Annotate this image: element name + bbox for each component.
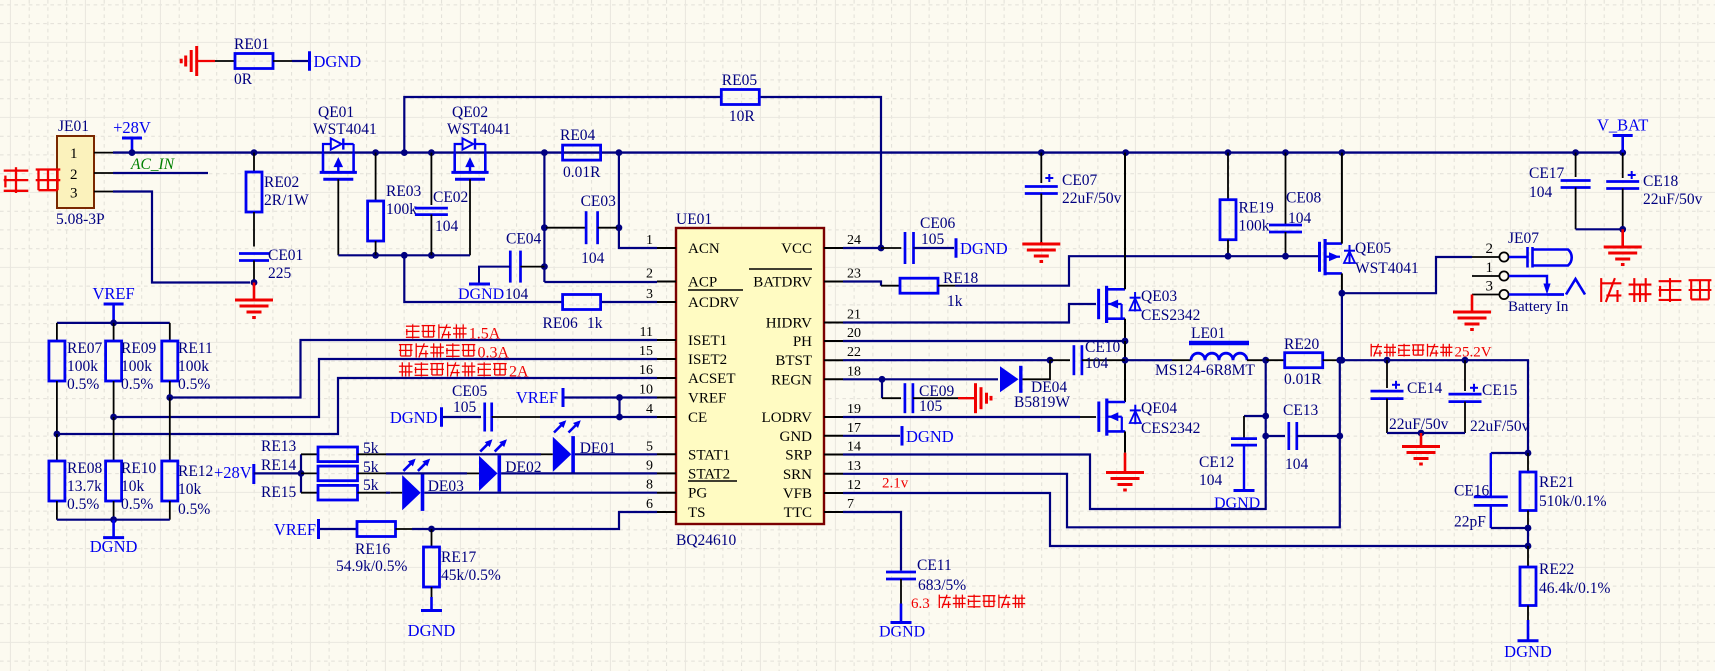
svg-text:5.08-3P: 5.08-3P	[56, 211, 105, 228]
svg-text:V_BAT: V_BAT	[1597, 116, 1648, 135]
svg-text:RE21: RE21	[1539, 474, 1574, 491]
junction rail x=254	[251, 149, 258, 156]
junction CE12 tap	[1262, 413, 1269, 420]
capacitor CE11	[879, 557, 966, 641]
junction gate rail CE02	[428, 252, 435, 259]
junction CE14 tap	[1384, 357, 1391, 364]
capacitor CE04	[505, 231, 544, 304]
svg-text:DGND: DGND	[390, 408, 438, 427]
svg-text:VREF: VREF	[93, 284, 135, 303]
svg-text:105: 105	[921, 231, 945, 248]
junction gate rail ACDRV	[401, 252, 408, 259]
svg-text:1k: 1k	[587, 315, 603, 332]
capacitor CE01	[239, 247, 303, 283]
junction CE row	[616, 414, 623, 421]
capacitor CE12	[1199, 416, 1266, 512]
resistor RE10	[106, 417, 157, 520]
svg-text:CE: CE	[688, 410, 707, 426]
svg-text:CE10: CE10	[1085, 339, 1121, 356]
svg-text:0.01R: 0.01R	[563, 164, 601, 181]
junction rail x=1228	[1225, 149, 1232, 156]
svg-text:10k: 10k	[121, 478, 145, 495]
transistor QE04	[1099, 399, 1201, 438]
svg-text:4: 4	[646, 402, 653, 417]
svg-text:104: 104	[1529, 184, 1553, 201]
svg-text:RE03: RE03	[386, 183, 422, 200]
resistor RE18	[843, 270, 979, 310]
svg-text:22: 22	[847, 345, 861, 360]
junction LE01 right	[1262, 357, 1269, 364]
LED DE01	[386, 420, 657, 472]
wire JE01 pin2 / net AC_IN	[94, 156, 208, 173]
ground earth (CE07)	[1022, 242, 1060, 262]
svg-text:JE01: JE01	[58, 118, 89, 135]
wire SRP net	[843, 360, 1266, 509]
svg-text:DGND: DGND	[314, 52, 362, 71]
svg-text:CE02: CE02	[433, 189, 468, 206]
power port VREF (pin10)	[516, 388, 657, 407]
svg-text:QE03: QE03	[1141, 288, 1177, 305]
label 输入 (input)	[4, 167, 61, 193]
svg-text:ACN: ACN	[688, 241, 720, 257]
ground earth (RE01)	[181, 46, 215, 76]
svg-text:9: 9	[646, 458, 653, 473]
wire divider top rail	[57, 322, 170, 324]
ground DGND (divider)	[90, 520, 138, 556]
svg-text:3: 3	[1486, 279, 1494, 295]
transistor QE02	[447, 104, 511, 179]
wire CE17-CE18 gnd	[1576, 228, 1623, 230]
wire VCC	[843, 247, 881, 249]
wire ISET1 net	[170, 340, 657, 398]
wire BATDRV	[955, 256, 1318, 286]
junction CE08 bottom	[1282, 253, 1289, 260]
svg-text:DGND: DGND	[408, 621, 456, 640]
svg-text:100k: 100k	[386, 201, 417, 218]
svg-text:8: 8	[646, 478, 653, 493]
svg-text:DGND: DGND	[458, 286, 504, 303]
svg-text:RE17: RE17	[441, 549, 477, 566]
svg-text:6.3: 6.3	[911, 596, 930, 612]
svg-text:ACSET: ACSET	[688, 371, 736, 387]
svg-text:13: 13	[847, 459, 861, 474]
label 适配器限制电流2A	[399, 362, 529, 380]
svg-text:510k/0.1%: 510k/0.1%	[1539, 493, 1607, 510]
wire QE05 drain	[1341, 153, 1343, 244]
svg-text:CE05: CE05	[452, 383, 488, 400]
wire JE01 pin3	[94, 192, 250, 283]
wire QE04 source	[1124, 431, 1126, 452]
svg-text:WST4041: WST4041	[1355, 260, 1419, 277]
ground earth (CE14/15)	[1402, 433, 1440, 464]
svg-text:SRP: SRP	[785, 448, 812, 464]
svg-text:683/5%: 683/5%	[918, 577, 966, 594]
label 接锂电池	[1601, 278, 1711, 302]
ground earth (QE04)	[1106, 453, 1144, 490]
capacitor CE16	[1454, 453, 1528, 531]
svg-text:100k: 100k	[67, 358, 98, 375]
svg-text:CE04: CE04	[506, 231, 542, 248]
junction RE07/RE08	[54, 431, 61, 438]
svg-text:5: 5	[646, 439, 653, 454]
capacitor CE18	[1606, 153, 1702, 230]
svg-text:0.3A: 0.3A	[478, 345, 510, 362]
svg-text:104: 104	[1085, 355, 1109, 372]
connector JE01	[56, 118, 105, 228]
wire ACDRV	[404, 255, 657, 302]
wire ISET2 net	[114, 359, 657, 417]
svg-text:LODRV: LODRV	[762, 410, 813, 426]
junction CE18 gnd	[1619, 226, 1626, 233]
junction RE17 top	[428, 526, 435, 533]
LED DE03	[386, 459, 657, 511]
svg-text:CE07: CE07	[1062, 172, 1098, 189]
svg-text:104: 104	[581, 250, 605, 267]
svg-text:STAT1: STAT1	[688, 447, 730, 463]
svg-text:VFB: VFB	[783, 486, 812, 502]
resistor RE13	[261, 438, 386, 462]
transistor QE05	[1320, 239, 1419, 277]
resistor RE06	[543, 295, 603, 333]
resistor RE14	[261, 457, 386, 481]
svg-text:Battery In: Battery In	[1508, 299, 1569, 315]
junction PH	[1122, 338, 1129, 345]
svg-text:11: 11	[640, 325, 653, 340]
svg-text:21: 21	[847, 308, 861, 323]
wire RE21-VFB	[1527, 528, 1529, 546]
svg-text:SRN: SRN	[783, 467, 812, 483]
resistor RE22	[1520, 546, 1611, 620]
svg-text:5k: 5k	[363, 459, 379, 476]
svg-text:19: 19	[847, 402, 861, 417]
svg-text:PG: PG	[688, 486, 707, 502]
capacitor CE05	[443, 383, 540, 432]
junction CE15 tap	[1462, 357, 1469, 364]
wire RE13-15 common	[300, 454, 302, 492]
svg-text:RE18: RE18	[943, 270, 979, 287]
wire ACP	[544, 281, 657, 283]
resistor RE11	[162, 323, 213, 398]
wire VREF tie	[618, 398, 620, 418]
svg-text:7: 7	[847, 497, 854, 512]
wire battery feed	[1341, 293, 1343, 360]
wire CE pin4	[540, 416, 657, 418]
junction rail x=375	[372, 149, 379, 156]
wire QE01 gate	[337, 179, 339, 255]
svg-text:1: 1	[1486, 260, 1494, 276]
svg-text:RE06: RE06	[543, 315, 579, 332]
svg-text:TS: TS	[688, 505, 706, 521]
resistor RE08	[49, 434, 103, 520]
resistor RE04	[560, 127, 601, 181]
svg-text:1k: 1k	[947, 293, 963, 310]
svg-text:BTST: BTST	[775, 353, 812, 369]
ground earth (CE18)	[1604, 229, 1642, 264]
junction VREF	[110, 320, 117, 327]
junction REGN	[879, 376, 886, 383]
svg-text:JE07: JE07	[1508, 230, 1539, 247]
ground earth (CE01)	[235, 283, 273, 318]
svg-text:WST4041: WST4041	[313, 121, 377, 138]
junction RE11/RE12	[166, 394, 173, 401]
junction VCC	[878, 245, 885, 252]
junction RE20 right	[1336, 357, 1343, 364]
wire QE05 source	[1341, 273, 1343, 293]
svg-text:+28V: +28V	[113, 118, 151, 137]
svg-text:2.1v: 2.1v	[882, 476, 909, 492]
svg-text:2: 2	[70, 167, 78, 183]
junction rail x=431	[428, 149, 435, 156]
svg-text:CE13: CE13	[1283, 402, 1319, 419]
svg-text:+28V: +28V	[214, 463, 252, 482]
svg-text:20: 20	[847, 326, 861, 341]
svg-text:DGND: DGND	[1504, 642, 1552, 661]
resistor RE03	[368, 153, 422, 256]
svg-text:3: 3	[70, 186, 78, 202]
svg-text:0.5%: 0.5%	[67, 376, 99, 393]
label 快充电流1.5A	[406, 324, 501, 342]
IC U_E01 BQ24610	[639, 211, 861, 549]
capacitor CE15	[1449, 360, 1530, 435]
junction rail x=544	[541, 149, 548, 156]
wire PH	[843, 340, 1125, 342]
svg-text:CE17: CE17	[1529, 165, 1565, 182]
wire VFB net	[843, 493, 1527, 546]
svg-text:2A: 2A	[509, 364, 529, 381]
svg-text:RE15: RE15	[261, 484, 297, 501]
svg-text:DGND: DGND	[906, 427, 954, 446]
svg-text:1.5A: 1.5A	[469, 326, 501, 343]
svg-text:UE01: UE01	[676, 211, 712, 228]
ground DGND (RE22)	[1504, 620, 1552, 661]
svg-text:ACDRV: ACDRV	[688, 295, 739, 311]
svg-text:10R: 10R	[729, 108, 756, 125]
svg-text:RE01: RE01	[234, 36, 269, 53]
svg-text:DGND: DGND	[90, 537, 138, 556]
svg-text:24: 24	[847, 233, 861, 248]
svg-text:CE03: CE03	[581, 193, 617, 210]
svg-text:16: 16	[639, 363, 653, 378]
junction DE04 top	[1047, 357, 1054, 364]
svg-text:0.5%: 0.5%	[121, 496, 153, 513]
wire HIDRV	[843, 304, 1096, 323]
junction RE14 left	[298, 470, 305, 477]
svg-text:15: 15	[639, 344, 653, 359]
wire QE03 source	[1124, 319, 1126, 341]
wire main rail	[113, 151, 1623, 153]
resistor RE05	[721, 72, 759, 125]
junction rail x=1622	[1619, 149, 1626, 156]
junction rail x=1575	[1572, 149, 1579, 156]
power port +28V	[113, 118, 151, 153]
svg-text:25.2V: 25.2V	[1455, 345, 1492, 361]
svg-text:22uF/50v: 22uF/50v	[1470, 418, 1530, 435]
power port VREF (divider)	[93, 284, 135, 323]
svg-text:18: 18	[847, 364, 861, 379]
svg-text:12: 12	[847, 478, 861, 493]
junction gate rail RE03	[372, 252, 379, 259]
wire JE07 pin1	[1472, 276, 1585, 295]
svg-text:104: 104	[1288, 210, 1312, 227]
wire SRN net	[843, 360, 1340, 527]
svg-text:RE20: RE20	[1284, 336, 1320, 353]
junction rail x=1341	[1339, 149, 1346, 156]
power port +28V (RE13 group)	[214, 463, 301, 484]
svg-text:RE11: RE11	[178, 340, 213, 357]
svg-text:VCC: VCC	[781, 241, 812, 257]
svg-text:B5819W: B5819W	[1014, 394, 1070, 411]
svg-text:BATDRV: BATDRV	[753, 275, 812, 291]
label 最高充电电压25.2V	[1371, 344, 1492, 361]
wire QE03 drain	[1124, 153, 1126, 290]
LED DE02	[386, 439, 657, 491]
junction SRN-CE13	[1336, 433, 1343, 440]
svg-text:CE15: CE15	[1482, 382, 1518, 399]
svg-text:3: 3	[646, 287, 653, 302]
junction CE01 bottom	[251, 279, 258, 286]
svg-text:RE08: RE08	[67, 460, 103, 477]
svg-text:1: 1	[70, 146, 78, 162]
junction RE21 top	[1525, 450, 1532, 457]
resistor RE02	[246, 153, 309, 247]
svg-text:0.01R: 0.01R	[1284, 371, 1322, 388]
ground DGND (RE17)	[408, 597, 456, 640]
power port V_BAT	[1597, 116, 1648, 153]
resistor RE20	[1266, 336, 1338, 388]
svg-text:1: 1	[646, 233, 653, 248]
svg-text:STAT2: STAT2	[688, 466, 730, 482]
label 2.1v	[882, 476, 909, 492]
svg-text:RE16: RE16	[355, 541, 391, 558]
svg-text:5k: 5k	[363, 477, 379, 494]
junction battery node	[1339, 357, 1346, 364]
resistor RE01	[215, 36, 308, 88]
junction QE05 source	[1339, 290, 1346, 297]
svg-text:2: 2	[1486, 241, 1494, 257]
junction CE03 left	[541, 224, 548, 231]
svg-text:2R/1W: 2R/1W	[264, 192, 309, 209]
wire ACN branch	[544, 153, 657, 282]
junction rail x=132	[129, 149, 136, 156]
port DGND (CE04)	[458, 267, 510, 303]
svg-text:5k: 5k	[363, 440, 379, 457]
wire LODRV	[843, 416, 1096, 418]
capacitor CE07	[1025, 153, 1122, 242]
connector JE07	[1486, 230, 1572, 315]
svg-text:RE02: RE02	[264, 174, 299, 191]
wire divider bottom rail	[57, 519, 170, 521]
svg-text:CE08: CE08	[1286, 190, 1322, 207]
transistor QE01	[313, 104, 377, 179]
svg-text:CE12: CE12	[1199, 454, 1234, 471]
svg-text:10k: 10k	[178, 481, 202, 498]
wire TS net	[412, 512, 657, 529]
svg-text:6: 6	[646, 497, 653, 512]
svg-text:0.5%: 0.5%	[67, 496, 99, 513]
junction rail x=404	[401, 149, 408, 156]
wire to JE07 pin2	[1342, 257, 1499, 293]
resistor RE17	[424, 529, 501, 597]
svg-text:100k: 100k	[121, 358, 152, 375]
svg-text:225: 225	[268, 265, 292, 282]
svg-text:LE01: LE01	[1191, 325, 1225, 342]
transistor QE03	[1099, 286, 1201, 324]
resistor RE12	[162, 398, 214, 520]
junction CE03 right	[616, 224, 623, 231]
svg-text:REGN: REGN	[771, 372, 812, 388]
port DGND (CE06)	[956, 238, 1008, 258]
svg-text:13.7k: 13.7k	[67, 478, 102, 495]
svg-text:CES2342: CES2342	[1141, 420, 1200, 437]
svg-text:QE02: QE02	[452, 104, 488, 121]
svg-text:RE12: RE12	[178, 463, 213, 480]
capacitor CE03	[546, 193, 617, 267]
junction rail x=1041	[1038, 149, 1045, 156]
svg-text:22uF/50v: 22uF/50v	[1643, 191, 1703, 208]
wire BTST	[843, 359, 1048, 361]
wire RE05 rail	[404, 97, 881, 248]
svg-text:VREF: VREF	[688, 391, 726, 407]
junction RE21 bottom	[1525, 525, 1532, 532]
svg-text:45k/0.5%: 45k/0.5%	[441, 567, 501, 584]
svg-text:22pF: 22pF	[1454, 514, 1486, 531]
resistor RE15	[261, 477, 386, 501]
wire charge output	[1340, 360, 1528, 453]
resistor RE07	[49, 323, 103, 434]
svg-text:CES2342: CES2342	[1141, 307, 1200, 324]
capacitor CE10	[1050, 339, 1125, 375]
capacitor CE08	[1269, 153, 1322, 257]
wire TTC	[843, 512, 901, 571]
capacitor CE13	[1266, 402, 1340, 473]
svg-text:CE01: CE01	[268, 247, 303, 264]
capacitor CE17	[1529, 153, 1591, 230]
svg-text:54.9k/0.5%: 54.9k/0.5%	[336, 558, 408, 575]
wire switch-LE01	[1125, 359, 1191, 361]
capacitor CE02	[415, 153, 468, 256]
junction rail x=1125	[1122, 149, 1129, 156]
svg-text:ISET2: ISET2	[688, 352, 727, 368]
svg-text:105: 105	[919, 398, 943, 415]
svg-text:CE06: CE06	[920, 215, 956, 232]
svg-text:10: 10	[639, 383, 653, 398]
svg-text:QE01: QE01	[318, 104, 354, 121]
svg-text:RE09: RE09	[121, 340, 157, 357]
svg-text:QE05: QE05	[1355, 240, 1391, 257]
resistor RE16	[336, 522, 412, 576]
junction VREF row	[616, 394, 623, 401]
capacitor CE06	[881, 215, 956, 264]
port DGND (GND pin)	[843, 426, 954, 446]
svg-text:DGND: DGND	[1214, 495, 1260, 512]
wire PH-QE04	[1124, 341, 1126, 402]
svg-text:104: 104	[505, 286, 529, 303]
ground earth (JE07)	[1453, 295, 1491, 330]
wire REGN	[843, 378, 998, 380]
svg-text:CE14: CE14	[1407, 380, 1443, 397]
svg-text:RE22: RE22	[1539, 561, 1574, 578]
svg-text:VREF: VREF	[516, 388, 558, 407]
svg-text:104: 104	[1199, 472, 1223, 489]
svg-text:2: 2	[646, 267, 653, 282]
junction divider bottom	[110, 516, 117, 523]
svg-text:DGND: DGND	[879, 624, 925, 641]
wire QE02 gate	[469, 179, 471, 255]
junction RE19 bottom	[1225, 253, 1232, 260]
svg-text:RE19: RE19	[1239, 200, 1275, 217]
junction rail x=1285	[1282, 149, 1289, 156]
svg-text:RE10: RE10	[121, 460, 157, 477]
